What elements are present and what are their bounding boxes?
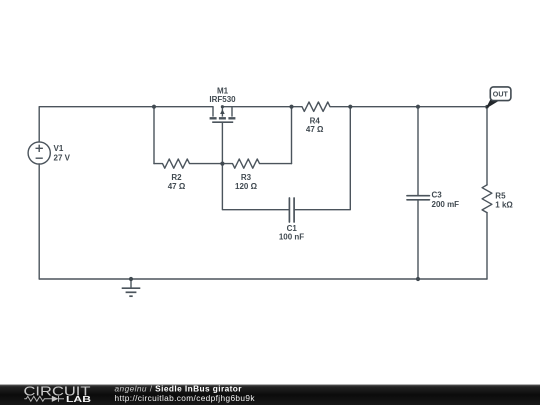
- capacitor C1: [288, 198, 290, 222]
- svg-text:C1: C1: [287, 224, 298, 233]
- transistor M1 (NMOS, gate down): [210, 107, 236, 164]
- svg-text:OUT: OUT: [493, 90, 508, 99]
- wire R3 right vertical up to source rail: [291, 107, 293, 164]
- svg-text:200 mF: 200 mF: [432, 200, 460, 209]
- svg-text:47 Ω: 47 Ω: [306, 125, 324, 134]
- junction OUT node: [485, 105, 489, 109]
- capacitor C3: [407, 195, 429, 197]
- svg-text:LAB: LAB: [66, 394, 91, 404]
- source middle stub: [221, 107, 223, 117]
- svg-text:R4: R4: [310, 116, 321, 125]
- wire V1 bottom to ground rail: [38, 164, 40, 279]
- junction R3 top on source rail: [289, 105, 293, 109]
- source right stub: [231, 107, 233, 117]
- junction M1 source at rail: [221, 105, 224, 108]
- resistor R3: [222, 159, 291, 168]
- wire top-left rail (V1+ to M1 drain): [39, 107, 213, 142]
- resistor R5 (vertical): [482, 185, 492, 213]
- svg-text:V1: V1: [54, 144, 64, 153]
- gate wire: [221, 122, 223, 163]
- svg-text:R3: R3: [241, 173, 252, 182]
- svg-text:100 nF: 100 nF: [279, 233, 304, 242]
- wire R2 branch vertical: [153, 107, 155, 164]
- junction ground on bottom rail: [129, 277, 133, 281]
- channel bars: [210, 117, 217, 119]
- svg-text:47 Ω: 47 Ω: [168, 182, 186, 191]
- svg-text:R5: R5: [495, 191, 506, 200]
- junction C3 bottom on bottom rail: [416, 277, 420, 281]
- wire C3 bottom: [417, 200, 419, 279]
- ground: [122, 279, 141, 296]
- wire C3 branch: [417, 107, 419, 196]
- wire source rail with resistor R4 inline: [222, 102, 487, 111]
- M1 body arrow: [220, 109, 225, 114]
- wire C1 right to rail: [294, 107, 350, 210]
- svg-text:1 kΩ: 1 kΩ: [495, 200, 513, 209]
- wire bottom rail: [39, 278, 487, 280]
- junction C3 branch on source rail: [416, 105, 420, 109]
- svg-text:angelnu / Siedle InBus girator: angelnu / Siedle InBus girator: [115, 383, 243, 393]
- gate plate: [212, 121, 233, 123]
- OUT flag: [487, 87, 511, 108]
- footer CircuitLab logo: [24, 384, 92, 404]
- svg-text:120 Ω: 120 Ω: [235, 182, 258, 191]
- svg-text:http://circuitlab.com/cedpfjhg: http://circuitlab.com/cedpfjhg6bu9k: [115, 393, 256, 403]
- wire R5 bottom: [486, 213, 488, 279]
- resistor R2: [154, 159, 222, 168]
- wire gate node down and to C1: [222, 164, 289, 210]
- junction V1+/R2 branch on top rail: [152, 105, 156, 109]
- drain stub: [212, 107, 214, 117]
- junction gate node R2/R3: [220, 162, 224, 166]
- svg-text:IRF530: IRF530: [209, 95, 236, 104]
- svg-text:C3: C3: [432, 190, 443, 199]
- svg-text:R2: R2: [171, 173, 182, 182]
- voltage source V1: [28, 142, 50, 164]
- svg-text:27 V: 27 V: [54, 153, 71, 162]
- junction C1 branch on source rail: [348, 105, 352, 109]
- wire OUT branch down to R5: [486, 107, 488, 185]
